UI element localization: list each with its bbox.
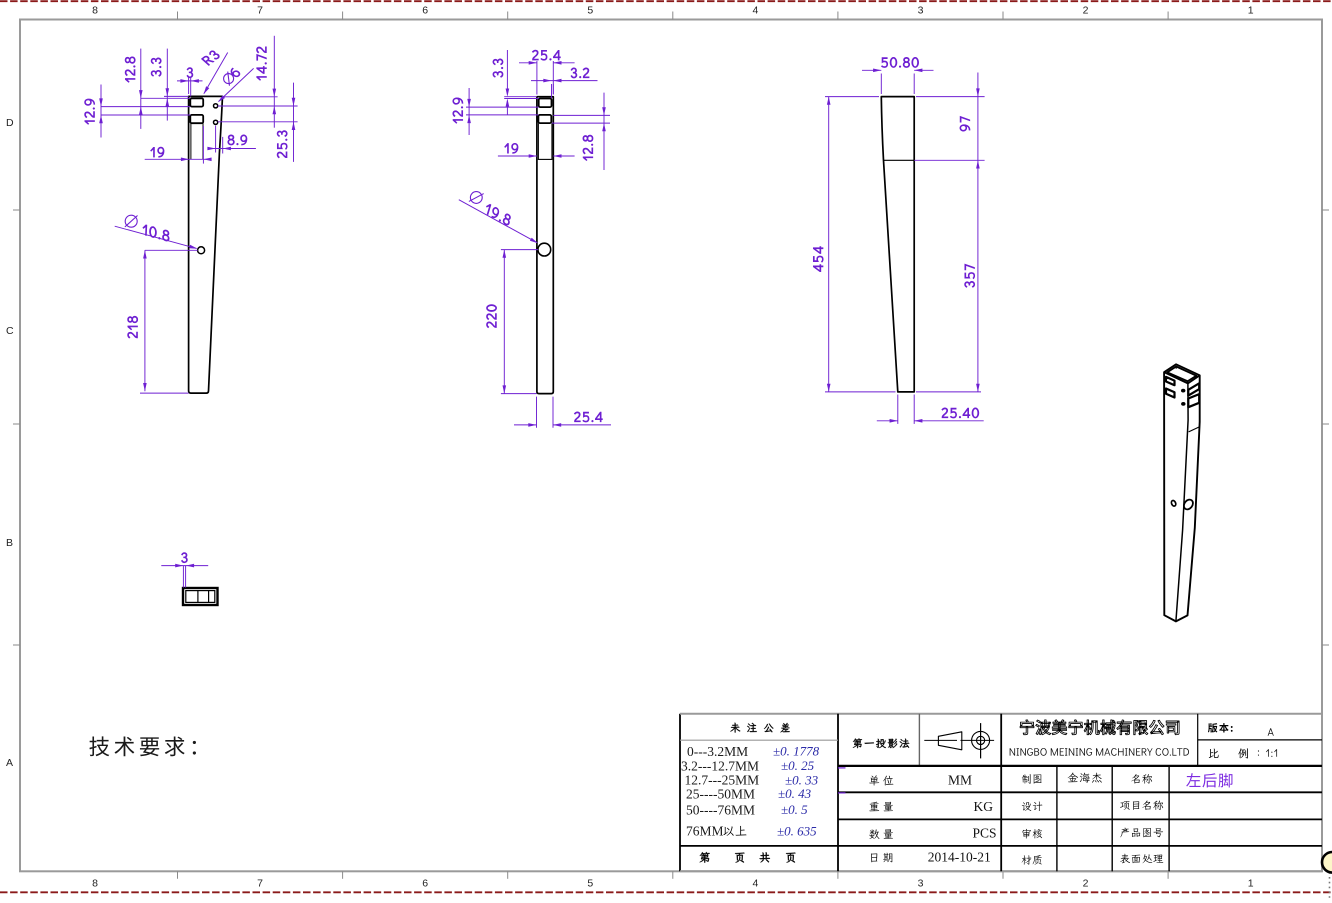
corner yellow badge (1322, 852, 1332, 873)
technical requirements note (89, 736, 196, 756)
title block row line 4 (680, 845, 1322, 847)
corner dotted line (1329, 853, 1331, 898)
view2 dim 12.8 (603, 93, 605, 170)
view1 side hole (198, 247, 205, 254)
view2 dim 3.3 (506, 50, 508, 95)
iso top inner opening (1167, 367, 1196, 382)
iso front edge (1176, 383, 1188, 621)
tolerance header (730, 723, 789, 733)
svg-text:4: 4 (752, 5, 758, 17)
version value A (1268, 728, 1274, 736)
cell name label (1131, 774, 1152, 784)
svg-text:6: 6 (422, 5, 428, 17)
svg-text:7: 7 (257, 5, 263, 17)
svg-text:B: B (6, 537, 13, 549)
svg-text:D: D (6, 117, 14, 129)
view3 leg outline (881, 97, 914, 392)
tolerance row cjk suffix (723, 826, 746, 836)
view2 dim 3.2 (531, 80, 598, 82)
view1 dim 25.3 (293, 83, 295, 162)
view1 dim 218 (144, 250, 146, 391)
units row labels (869, 775, 893, 785)
view3 shoulder line (884, 159, 915, 161)
iso small hole (1171, 500, 1177, 507)
view2 slot 2 (538, 115, 551, 123)
iso leg silhouette (1164, 364, 1200, 621)
view2 dim 12.9 (468, 88, 470, 135)
iso top rim (1164, 372, 1200, 383)
view2 leg outline (537, 97, 553, 394)
iso taper start line (1189, 427, 1200, 432)
iso left face slot B (1166, 389, 1175, 398)
view1 dowel hole 2 (214, 120, 218, 124)
title block column line F (1168, 766, 1170, 871)
section dim 3 (161, 565, 208, 567)
version label (1208, 723, 1233, 733)
title block purple tick 2 (838, 792, 846, 794)
view2 dim 220 (503, 250, 505, 394)
svg-text:5: 5 (587, 5, 593, 17)
view2 dim 19 (498, 155, 537, 157)
svg-text:5: 5 (587, 878, 593, 890)
projection symbol centerline (924, 739, 957, 741)
view1 slot 2 (190, 115, 203, 123)
svg-text:1: 1 (1248, 5, 1254, 17)
svg-text:7: 7 (257, 878, 263, 890)
cell surface label (1120, 854, 1163, 864)
company name cn (1020, 720, 1179, 735)
svg-text:4: 4 (752, 878, 758, 890)
cell project label (1120, 800, 1163, 810)
projection symbol target (972, 731, 990, 749)
title block outer lines (679, 714, 681, 872)
view3 dim 454 (828, 97, 830, 392)
svg-text:3: 3 (918, 5, 924, 17)
svg-text:C: C (6, 325, 14, 337)
iso right face slot B (1188, 394, 1199, 407)
title block column line D (1056, 766, 1058, 871)
view1 leader R3 (204, 53, 228, 94)
title block column line E (1111, 766, 1113, 871)
view1 hidden slot walls (190, 123, 192, 159)
iso left face slot A (1166, 377, 1175, 385)
section view divider 2 (208, 591, 210, 603)
cell product no label (1120, 828, 1163, 838)
zone ticks left (13, 209, 20, 211)
view2 leader dia19.8 (459, 200, 537, 243)
red dashed bottom border (0, 891, 1332, 893)
view1 dowel hole 1 (214, 104, 218, 108)
title block row line 3 (838, 818, 1322, 820)
svg-text:A: A (6, 757, 13, 769)
part name (1186, 773, 1232, 787)
scale row (1209, 749, 1219, 758)
iso top wall edges (1167, 367, 1196, 384)
view2 dim 25.4 top (519, 62, 537, 64)
red dashed top border (0, 0, 1332, 2)
view1 leg outline (189, 96, 223, 393)
view2 hidden slot walls (537, 123, 539, 159)
view3 dim 97 and 357 line (977, 73, 979, 392)
svg-text:6: 6 (422, 878, 428, 890)
view1 leader dia6 (219, 68, 254, 101)
projection method label (853, 738, 909, 748)
zone ticks right (1322, 209, 1329, 211)
view2 side hole (538, 243, 551, 256)
view2 dim 25.4 bottom (514, 424, 537, 426)
section view inner bore (186, 591, 215, 603)
svg-text:2: 2 (1083, 5, 1089, 17)
iso right face slot A (1188, 383, 1199, 395)
view1 slot 1 (190, 98, 203, 106)
title block column line G (1197, 714, 1199, 766)
cell audit label (1022, 829, 1042, 839)
iso dowel hole 2 (1181, 402, 1185, 406)
title block row line under tolerance header (680, 739, 838, 741)
title block column line B (918, 714, 920, 766)
cell drafter name (1068, 773, 1102, 783)
title block purple tick 1 (838, 767, 846, 769)
view2 tenon shoulder line (538, 158, 553, 160)
svg-text:1: 1 (1248, 878, 1254, 890)
svg-text:2: 2 (1083, 878, 1089, 890)
iso through hole (1182, 498, 1195, 511)
page footer cell (700, 852, 710, 863)
iso dowel hole 1 (1181, 389, 1185, 393)
view1 dim 12.9 (100, 85, 102, 138)
view3 dim 97 text (960, 116, 970, 131)
company name en (1010, 748, 1189, 756)
cell draw label (1022, 774, 1042, 784)
view1 dim 3.3 (166, 49, 168, 121)
view1 dim 19 (145, 158, 210, 160)
view3 dim 50.80 (862, 69, 881, 71)
view2 slot 1 (539, 99, 552, 108)
view1 dim 14.72 (273, 36, 275, 128)
view3 dim 357 text (965, 264, 975, 287)
title block column line A (837, 714, 839, 872)
title block row line 2 (838, 791, 1322, 793)
view3 dim 25.40 (877, 420, 898, 422)
view1 leader dia10.8 (115, 226, 197, 248)
svg-text:3: 3 (918, 878, 924, 890)
title block row line main (838, 765, 1322, 767)
title block column line C (1000, 714, 1002, 872)
view1 dim 3 (177, 80, 203, 82)
view1 dim 12.8 (140, 49, 142, 129)
svg-text:8: 8 (92, 878, 98, 890)
view1 dim 8.9 (210, 148, 256, 150)
svg-text:8: 8 (92, 5, 98, 17)
zone ticks top (177, 12, 179, 20)
title block row line under version (1198, 739, 1322, 741)
zone ticks bottom (177, 871, 179, 879)
section view tube wall (183, 588, 218, 605)
cell material label (1022, 855, 1042, 865)
cell design label (1022, 802, 1043, 812)
projection symbol cone (938, 732, 961, 750)
section view divider 1 (197, 591, 199, 603)
